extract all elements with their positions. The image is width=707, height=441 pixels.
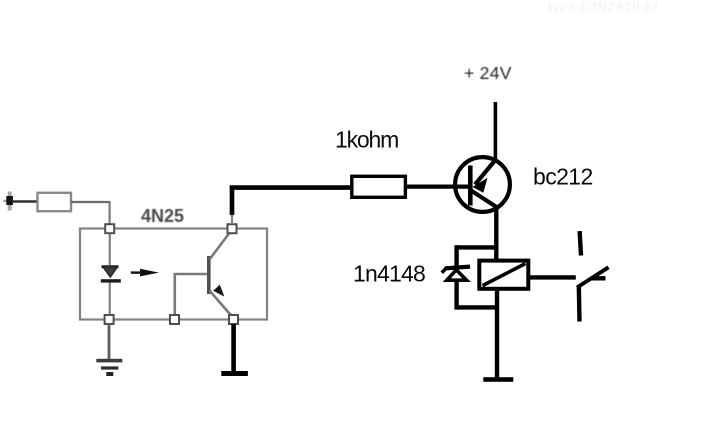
wire +24V down to transistor xyxy=(494,102,498,161)
transistor base bar xyxy=(468,166,473,206)
wire pin6 up and right to 1kohm (thick black) xyxy=(230,186,352,216)
wire resistor to corner xyxy=(71,201,109,203)
faint watermark top right xyxy=(548,0,658,14)
phototransistor base lead to pin 5 xyxy=(175,273,208,315)
pin 1 (top-left of 4N25) xyxy=(105,224,114,233)
ground (left, 3-bar) xyxy=(96,359,122,376)
svg-text:1n4148: 1n4148 xyxy=(353,261,425,287)
transistor emitter diagonal with arrow (PNP) xyxy=(473,160,496,193)
phototransistor emitter diagonal with arrow xyxy=(210,285,233,317)
wire corner down to 4N25 pin 1 xyxy=(108,201,110,224)
input terminal xyxy=(4,192,13,211)
ground (emitter T-bar) xyxy=(221,371,248,376)
pin 4 (bottom-right of 4N25) xyxy=(229,315,238,324)
pin 6 (top-right of 4N25) xyxy=(228,224,237,233)
diode branch top wire xyxy=(457,245,496,266)
wire pin6 up (grey stub) xyxy=(231,213,233,224)
svg-text:4N25: 4N25 xyxy=(141,206,184,226)
wire relay down to ground xyxy=(495,288,499,378)
svg-text:+ 24V: + 24V xyxy=(464,63,512,83)
resistor R2 1kohm xyxy=(352,176,406,197)
transistor collector diagonal xyxy=(471,191,497,208)
pin 5 (bottom-middle of 4N25) xyxy=(170,315,179,324)
light arrow (LED to phototransistor) xyxy=(131,269,159,277)
optocoupler U1 4N25 box xyxy=(80,229,267,320)
switch fixed contact top xyxy=(580,231,581,256)
resistor R1 (input, left) xyxy=(38,193,72,211)
ground (bottom T-bar) xyxy=(483,377,513,382)
svg-text:tvv-r-t-3N2S2tl-t-i: tvv-r-t-3N2S2tl-t-i xyxy=(548,0,658,14)
relay link to contact xyxy=(528,275,576,279)
wire collector down to relay xyxy=(494,205,498,261)
transistor Q1 bc212 circle xyxy=(455,157,510,212)
switch fixed contact right stub xyxy=(592,276,606,280)
wire pin4 down to ground (thick black) xyxy=(231,324,236,373)
switch pole wire down xyxy=(577,286,582,322)
phototransistor (inside 4N25): base bar xyxy=(207,256,211,294)
switch moving contact diagonal xyxy=(577,267,609,287)
svg-text:1kohm: 1kohm xyxy=(335,127,398,153)
svg-text:bc212: bc212 xyxy=(533,164,593,190)
wire 1kohm to transistor base xyxy=(405,185,469,189)
diode branch bottom wire xyxy=(457,281,498,310)
relay K1 coil box xyxy=(479,261,528,289)
wire input to resistor xyxy=(13,200,37,203)
wire LED anode (inside, vertical left) xyxy=(109,233,111,265)
pin 2 (bottom-left of 4N25) xyxy=(105,315,114,324)
diode D1 1n4148 xyxy=(442,267,470,281)
wire pin2 down to ground xyxy=(108,324,111,360)
LED D2 (inside 4N25) xyxy=(101,267,121,315)
phototransistor collector diagonal xyxy=(210,232,231,260)
